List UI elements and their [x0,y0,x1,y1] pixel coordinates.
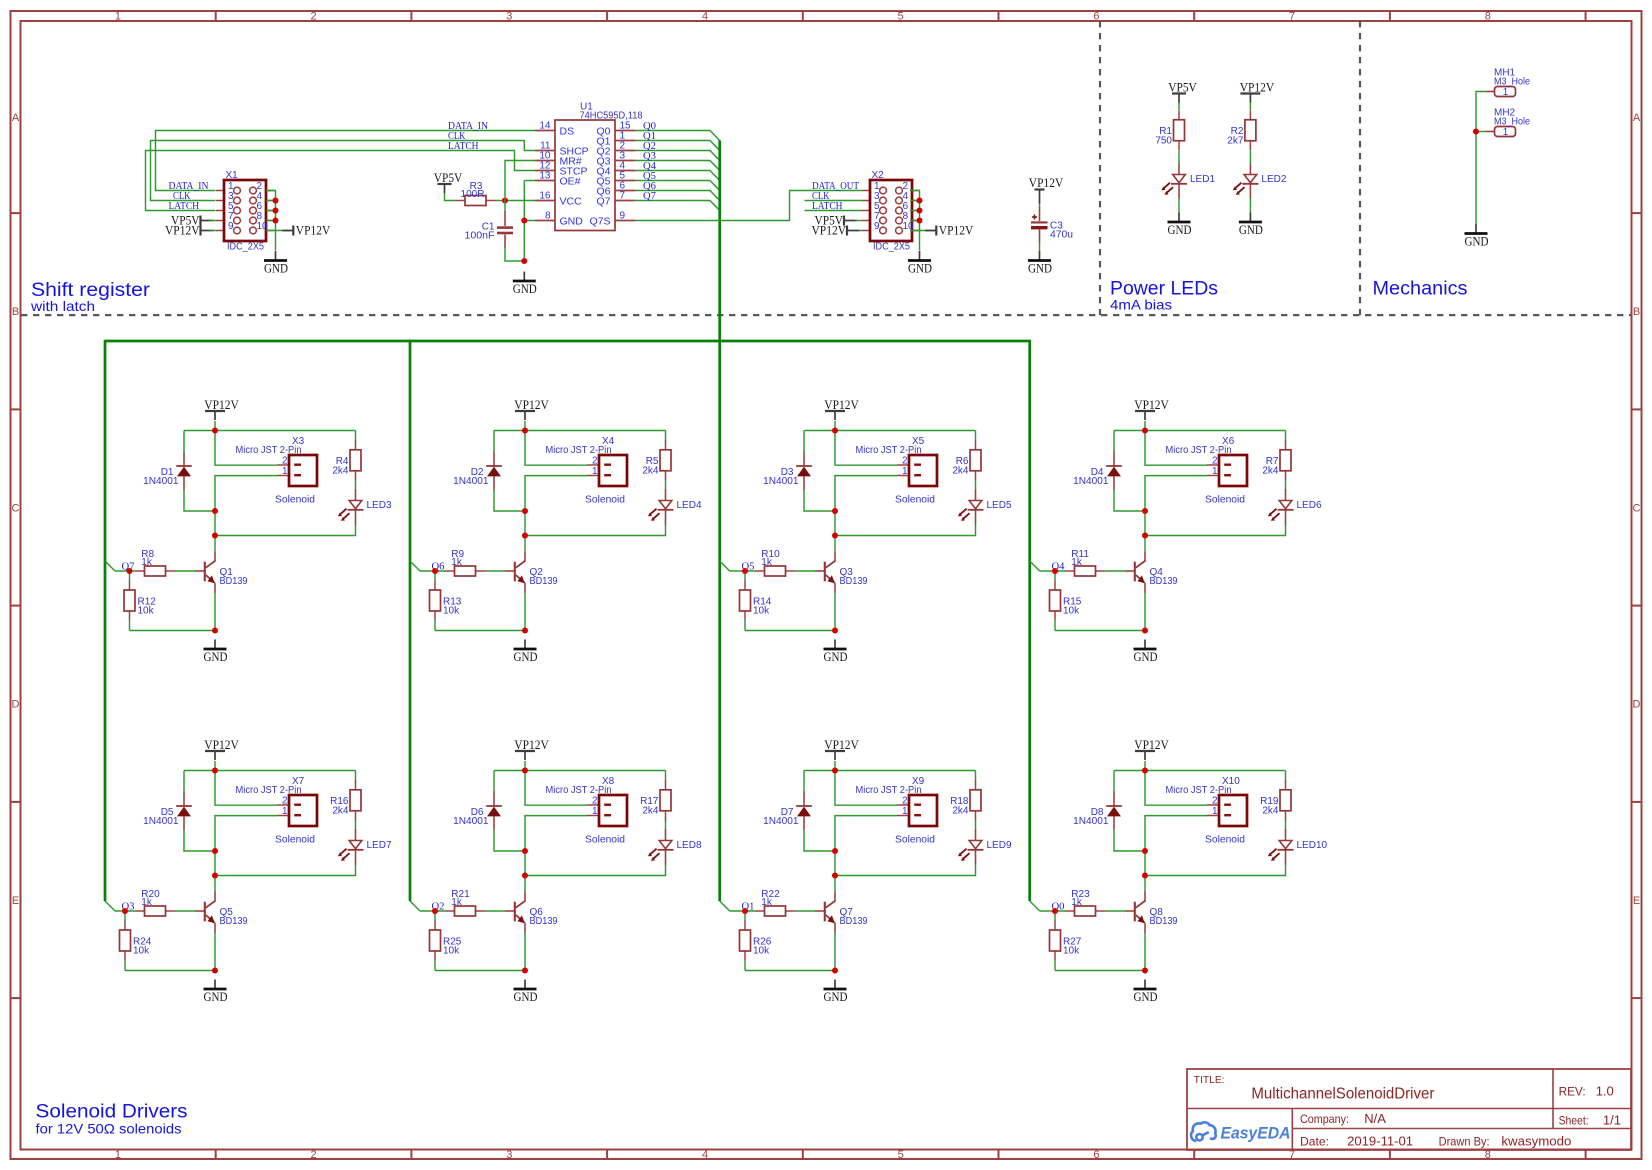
wire emitter to ground rail [745,592,835,631]
svg-text:2: 2 [592,456,598,467]
ground below LED1 [1168,213,1192,238]
wire emitter to ground rail [1055,592,1145,631]
diode D3 1N4001 [763,452,812,491]
net label Q1 [643,130,656,142]
wire X2 pin7 VP5V [855,220,862,222]
power flag VP12V at X1 [165,224,214,238]
svg-text:1/1: 1/1 [1603,1112,1621,1127]
wire emitter to ground rail [125,932,215,971]
svg-text:10k: 10k [443,946,460,957]
net label DATA_OUT at X2 [812,180,859,192]
section label Shift register [30,280,151,314]
wire Q1 to base resistor R22 [730,910,815,912]
svg-text:GND: GND [513,282,537,296]
junction led return node X9 [832,873,838,879]
wire LED1 to ground [1178,198,1180,213]
svg-text:Solenoid: Solenoid [1205,495,1245,506]
junction MH2 node [1473,129,1479,135]
junction VP12V stem X5 [832,428,838,434]
svg-text:LED9: LED9 [987,840,1012,851]
svg-text:Q7: Q7 [596,196,610,208]
svg-text:GND: GND [1465,235,1489,249]
wire Q7 output to bus [635,201,720,211]
wire emitter to ground rail [745,932,835,971]
led LED1 [1161,164,1215,199]
led LED5 [958,490,1012,525]
svg-text:BD139: BD139 [1150,916,1178,927]
svg-text:2: 2 [902,456,908,467]
bus entry Q5 [720,561,730,571]
power flag VP12V X9 [824,738,859,760]
connector X7 Micro JST 2-Pin [236,776,318,846]
svg-text:A: A [12,112,20,124]
svg-text:1k: 1k [1071,897,1083,908]
wire led LED8 return to collector node [525,864,666,892]
junction emitter node X7 [212,968,218,974]
junction emitter node X10 [1142,968,1148,974]
svg-text:7: 7 [1289,11,1295,23]
junction led return node X10 [1142,873,1148,879]
svg-text:2: 2 [282,456,288,467]
wire rail to connector X9 pin 2 [835,771,897,806]
svg-text:1N4001: 1N4001 [763,476,799,487]
svg-text:1N4001: 1N4001 [143,816,179,827]
resistor R27 10k [1050,921,1082,961]
wire mounting holes to ground [1476,92,1486,225]
power flag VP5V at X2 [815,214,858,228]
junction base node X10 [1052,908,1058,914]
svg-text:1: 1 [115,11,121,23]
svg-text:Solenoid: Solenoid [275,495,315,506]
svg-text:1: 1 [282,466,288,477]
power flag VP12V X4 [514,398,549,420]
wire C3 to ground [1039,243,1041,251]
ground below X2 [908,251,932,276]
wire VP5V to R1 [1178,103,1180,111]
wire Q3 output to bus [635,161,720,171]
junction led return node X3 [212,533,218,539]
junction base node X4 [432,568,438,574]
wire C1 to ground node [505,248,524,262]
resistor R6 2k4 [952,440,981,480]
power flag VP12V at C3 [1029,176,1064,204]
junction base node X6 [1052,568,1058,574]
svg-text:GND: GND [824,650,848,664]
junction X2 pin6 [917,208,923,214]
wire LATCH net [146,151,536,211]
wire VP12V rail X8 [494,761,666,831]
junction diode node X6 [1142,508,1148,514]
wire X1 pin9 VP12V [210,230,217,232]
power flag VP12V right of X1 [282,224,330,238]
capacitor C3 470u polarized [1031,207,1073,243]
wire led LED7 return to collector node [215,864,356,892]
svg-text:BD139: BD139 [220,916,248,927]
wire connector X3 pin 1 to collector node [215,476,277,511]
wire X1 pin7 VP5V [210,220,217,222]
svg-text:6: 6 [1093,1149,1099,1161]
svg-text:10k: 10k [133,946,150,957]
wire LED2 to ground [1249,198,1251,213]
svg-text:2: 2 [311,11,317,23]
svg-text:IDC_2X5: IDC_2X5 [873,242,910,253]
wire diode D5 to collector node [184,830,215,876]
wire rail to connector X8 pin 2 [525,771,587,806]
svg-text:EasyEDA: EasyEDA [1221,1125,1291,1143]
svg-text:3: 3 [506,11,512,23]
resistor R14 10k [740,581,772,621]
wire led LED9 return to collector node [835,864,976,892]
diode D1 1N4001 [143,452,192,491]
svg-text:GND: GND [1168,223,1192,237]
svg-text:BD139: BD139 [1150,576,1178,587]
svg-text:VCC: VCC [560,196,583,208]
wire VP12V rail X7 [184,761,356,831]
junction led return node X6 [1142,533,1148,539]
resistor R26 10k [740,921,772,961]
power flag VP12V X3 [204,398,239,420]
svg-text:DS: DS [560,126,575,138]
net label Q0 [643,120,656,132]
svg-text:LED3: LED3 [367,500,392,511]
wire connector X9 pin 1 to collector node [835,816,897,851]
svg-text:2k4: 2k4 [642,805,659,816]
svg-text:Micro JST 2-Pin: Micro JST 2-Pin [1166,785,1232,796]
junction diode node X10 [1142,848,1148,854]
wire R2 to LED2 [1249,151,1251,165]
svg-text:1N4001: 1N4001 [763,816,799,827]
junction led return node X8 [522,873,528,879]
junction VCC node [502,198,508,204]
resistor R9 1k [445,549,485,576]
led LED4 [648,490,702,525]
junction led return node X4 [522,533,528,539]
svg-text:10k: 10k [1063,606,1080,617]
svg-text:2k4: 2k4 [952,465,969,476]
wire VP12V rail X6 [1114,421,1286,491]
svg-text:2: 2 [1212,796,1218,807]
ground below Q5 [204,980,228,1005]
svg-text:2: 2 [282,796,288,807]
svg-text:GND: GND [1134,990,1158,1004]
ground below U1 [513,272,537,297]
svg-text:10k: 10k [138,606,155,617]
bus vertical column 3 [718,341,721,901]
svg-text:LED6: LED6 [1297,500,1322,511]
svg-text:VP12V: VP12V [939,224,974,238]
svg-text:74HC595D,118: 74HC595D,118 [580,111,643,122]
net label LATCH at U1 [448,140,479,152]
diode D5 1N4001 [143,792,192,831]
svg-text:Micro JST 2-Pin: Micro JST 2-Pin [546,445,612,456]
junction X1 pin8 [273,218,279,224]
svg-text:7: 7 [620,191,626,202]
power flag VP12V at X2 [812,224,861,238]
wire VP12V to C3 [1039,204,1041,209]
section divider dashed lines [21,21,1632,315]
net label Q6 [643,180,656,192]
power flag VP12V right of X2 [925,224,973,238]
svg-text:1k: 1k [141,557,153,568]
svg-text:LATCH: LATCH [448,140,479,152]
resistor R11 1k [1065,549,1105,576]
svg-text:GND: GND [560,216,584,228]
resistor R10 1k [755,549,795,576]
power flag VP12V at R2 [1240,81,1275,103]
svg-text:100R: 100R [461,189,485,200]
bus vertical from U1 outputs [718,141,721,342]
connector X4 Micro JST 2-Pin [546,436,628,506]
resistor R12 10k [124,581,156,621]
svg-text:for 12V 50Ω solenoids: for 12V 50Ω solenoids [36,1121,182,1137]
power flag VP12V X6 [1134,398,1169,420]
svg-text:Mechanics: Mechanics [1373,279,1468,300]
wire base node to pulldown R26 [744,911,746,921]
wire led LED3 return to collector node [215,524,356,552]
svg-text:100nF: 100nF [465,230,495,241]
net label Q7 [643,190,656,202]
wire led LED4 return to collector node [525,524,666,552]
ground in mechanics [1465,224,1489,249]
led LED10 [1268,830,1328,865]
wire rail to connector X6 pin 2 [1145,431,1207,466]
svg-text:470u: 470u [1050,229,1073,240]
svg-text:10k: 10k [753,606,770,617]
wire MR# to VCC node [505,161,535,201]
svg-text:D: D [12,699,20,711]
diode D8 1N4001 [1073,792,1122,831]
junction diode node X8 [522,848,528,854]
svg-text:VP12V: VP12V [812,224,847,238]
junction X2 pin4 [917,198,923,204]
svg-text:1k: 1k [1071,557,1083,568]
net label DATA_IN at X1 [169,180,209,192]
wire CLK net [151,141,536,201]
svg-text:Micro JST 2-Pin: Micro JST 2-Pin [1166,445,1232,456]
power flag VP12V X8 [514,738,549,760]
svg-text:Company:: Company: [1300,1112,1349,1126]
svg-text:GND: GND [204,650,228,664]
wire OE# and GND pin to ground [524,181,535,262]
svg-text:GND: GND [908,262,932,276]
section label Power LEDs [1110,279,1218,313]
wire rail to connector X5 pin 2 [835,431,897,466]
wire Q6 to base resistor R9 [420,570,505,572]
svg-text:A: A [1633,112,1641,124]
svg-text:5: 5 [898,11,904,23]
junction base node X8 [432,908,438,914]
junction ground node below C1 [521,258,527,264]
ic U1 74HC595D [535,102,643,231]
wire Q5 output to bus [635,181,720,191]
svg-text:10k: 10k [1063,946,1080,957]
svg-text:TITLE:: TITLE: [1194,1075,1225,1086]
connector X3 Micro JST 2-Pin [236,436,318,506]
junction X1 pin4 [273,198,279,204]
svg-text:Solenoid: Solenoid [895,835,935,846]
diode D2 1N4001 [453,452,502,491]
junction VP12V stem X7 [212,768,218,774]
svg-text:Solenoid: Solenoid [895,495,935,506]
svg-text:Micro JST 2-Pin: Micro JST 2-Pin [856,445,922,456]
transistor Q6 BD139 [505,892,558,933]
resistor R18 2k4 [950,780,981,820]
svg-text:1: 1 [282,806,288,817]
svg-text:4mA bias: 4mA bias [1110,297,1172,313]
transistor Q2 BD139 [505,552,558,593]
bus entry Q7 [105,561,115,571]
wire Q7S DATA_OUT to X2 [635,191,862,221]
led LED8 [648,830,702,865]
svg-text:2: 2 [1212,456,1218,467]
svg-text:2019-11-01: 2019-11-01 [1347,1134,1413,1149]
junction led return node X7 [212,873,218,879]
transistor Q7 BD139 [815,892,868,933]
wire led LED10 return to collector node [1145,864,1286,892]
svg-text:2k4: 2k4 [332,805,349,816]
svg-text:10k: 10k [753,946,770,957]
bus horizontal rail to driver channels [105,340,1030,343]
diode D6 1N4001 [453,792,502,831]
wire led LED5 return to collector node [835,524,976,552]
svg-text:GND: GND [824,990,848,1004]
svg-text:10k: 10k [443,606,460,617]
ground below Q2 [514,640,538,665]
svg-text:2k4: 2k4 [332,465,349,476]
net label Q5 [742,561,755,573]
led LED9 [958,830,1012,865]
svg-text:2: 2 [592,796,598,807]
wire Q4 output to bus [635,171,720,181]
wire diode D1 to collector node [184,490,215,536]
svg-text:Drawn By:: Drawn By: [1439,1135,1490,1149]
net label CLK at X1 [173,190,191,202]
power flag VP5V at R3 [434,171,463,193]
wire base node to pulldown R25 [434,911,436,921]
resistor R16 2k4 [330,780,361,820]
svg-text:GND: GND [514,990,538,1004]
svg-text:Q7: Q7 [643,190,656,202]
wire VP12V rail X9 [804,761,976,831]
wire Q2 to base resistor R21 [420,910,505,912]
wire R1 to LED1 [1178,151,1180,165]
wire connector X4 pin 1 to collector node [525,476,587,511]
wire emitter to ground rail [435,592,525,631]
led LED2 [1233,164,1287,199]
wire VP12V rail X3 [184,421,356,491]
wire Q1 output to bus [635,141,720,151]
junction X1 pin6 [273,208,279,214]
wire X1 pin10 to VP12V [266,230,292,232]
svg-text:2k4: 2k4 [1262,465,1279,476]
wire rail to connector X3 pin 2 [215,431,277,466]
led LED3 [338,490,392,525]
resistor R19 2k4 [1260,780,1291,820]
wire Q2 output to bus [635,151,720,161]
wire base node to pulldown R27 [1054,911,1056,921]
svg-text:1: 1 [1212,466,1218,477]
wire diode D4 to collector node [1114,490,1145,536]
junction X2 pin8 [917,218,923,224]
wire X2 ground riser pins 2,4,6,8 [910,191,920,251]
svg-text:5: 5 [898,1149,904,1161]
resistor R1 750 [1155,110,1184,150]
wire diode D2 to collector node [494,490,525,536]
wire X2 pin10 to VP12V [910,230,935,232]
svg-text:Micro JST 2-Pin: Micro JST 2-Pin [546,785,612,796]
connector X5 Micro JST 2-Pin [856,436,938,506]
svg-text:2k4: 2k4 [642,465,659,476]
junction emitter node X9 [832,968,838,974]
wire Q0 to base resistor R23 [1040,910,1125,912]
wire VP12V to R2 [1249,103,1251,111]
wire CLK stub at X2 [805,200,863,202]
connector X8 Micro JST 2-Pin [546,776,628,846]
net label CLK at U1 [448,130,466,142]
svg-text:LED7: LED7 [367,840,392,851]
svg-text:1: 1 [902,806,908,817]
svg-text:13: 13 [539,171,551,182]
svg-text:1.0: 1.0 [1596,1084,1614,1099]
svg-text:9: 9 [874,221,880,232]
section label Mechanics [1373,279,1468,300]
junction base node X3 [127,568,133,574]
wire diode D3 to collector node [804,490,835,536]
svg-text:BD139: BD139 [220,576,248,587]
wire Q7 to base resistor R8 [115,570,195,572]
bus vertical column 1 [104,340,107,901]
wire VP12V rail X4 [494,421,666,491]
wire VP12V rail X5 [804,421,976,491]
svg-text:X1: X1 [226,170,239,181]
wire base node to pulldown R13 [434,571,436,581]
ground below Q7 [824,980,848,1005]
wire Q6 output to bus [635,191,720,201]
resistor R25 10k [430,921,462,961]
svg-text:8: 8 [1485,11,1491,23]
svg-text:LED8: LED8 [677,840,702,851]
svg-text:BD139: BD139 [530,576,558,587]
wire Q4 to base resistor R11 [1040,570,1125,572]
wire rail to connector X10 pin 2 [1145,771,1207,806]
power flag VP12V X5 [824,398,859,420]
junction emitter node X6 [1142,628,1148,634]
wire emitter to ground rail [130,592,216,631]
connector X10 Micro JST 2-Pin [1166,776,1248,846]
bus entry Q4 [1030,561,1040,571]
bus vertical column 4 [1028,340,1031,901]
led LED7 [338,830,392,865]
svg-text:9: 9 [228,221,234,232]
svg-text:Solenoid: Solenoid [1205,835,1245,846]
svg-text:Sheet:: Sheet: [1559,1113,1589,1127]
ground below Q1 [204,640,228,665]
svg-text:LED4: LED4 [677,500,702,511]
junction emitter node X5 [832,628,838,634]
svg-text:LED2: LED2 [1261,174,1286,185]
svg-text:14: 14 [539,121,551,132]
svg-text:1k: 1k [141,897,153,908]
wire VP5V to R3 [445,193,456,201]
ground below C3 [1028,251,1052,276]
svg-text:LED1: LED1 [1190,174,1215,185]
resistor R4 2k4 [332,440,361,480]
svg-text:Micro JST 2-Pin: Micro JST 2-Pin [236,785,302,796]
junction emitter node X4 [522,628,528,634]
junction VP12V stem X10 [1142,768,1148,774]
wire base node to pulldown R15 [1054,571,1056,581]
junction U1 GND pin [521,218,527,224]
